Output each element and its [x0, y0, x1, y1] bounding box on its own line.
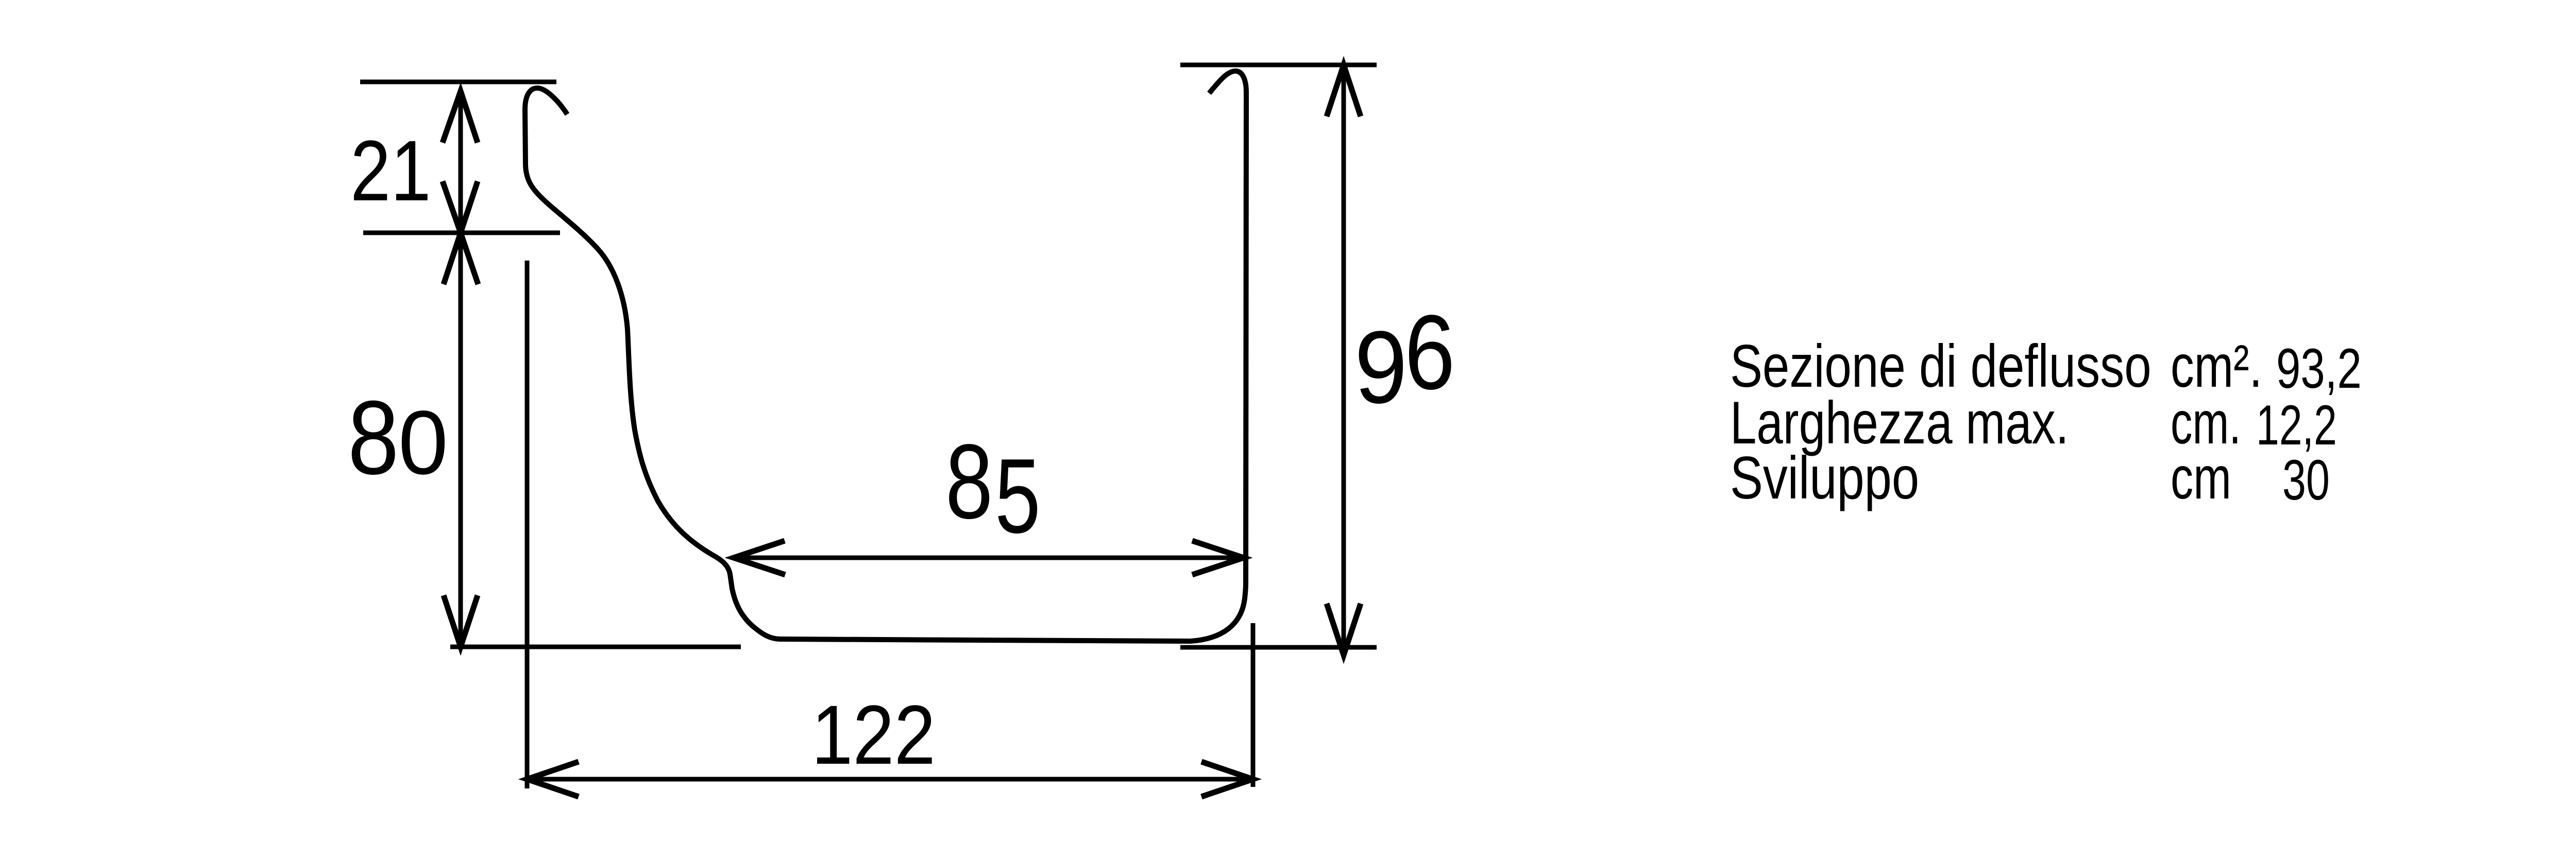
svg-text:30: 30 [2282, 449, 2330, 512]
svg-text:cm: cm [2171, 444, 2231, 511]
svg-text:122: 122 [811, 688, 936, 782]
svg-text:5: 5 [995, 437, 1041, 555]
svg-text:0: 0 [398, 392, 448, 493]
svg-text:21: 21 [350, 123, 431, 219]
svg-text:12,2: 12,2 [2256, 394, 2337, 457]
svg-text:93,2: 93,2 [2276, 337, 2362, 400]
svg-text:6: 6 [1404, 293, 1455, 411]
svg-text:9: 9 [1354, 310, 1408, 424]
svg-text:Sviluppo: Sviluppo [1730, 444, 1919, 511]
svg-text:8: 8 [945, 422, 993, 541]
svg-text:8: 8 [348, 379, 399, 496]
